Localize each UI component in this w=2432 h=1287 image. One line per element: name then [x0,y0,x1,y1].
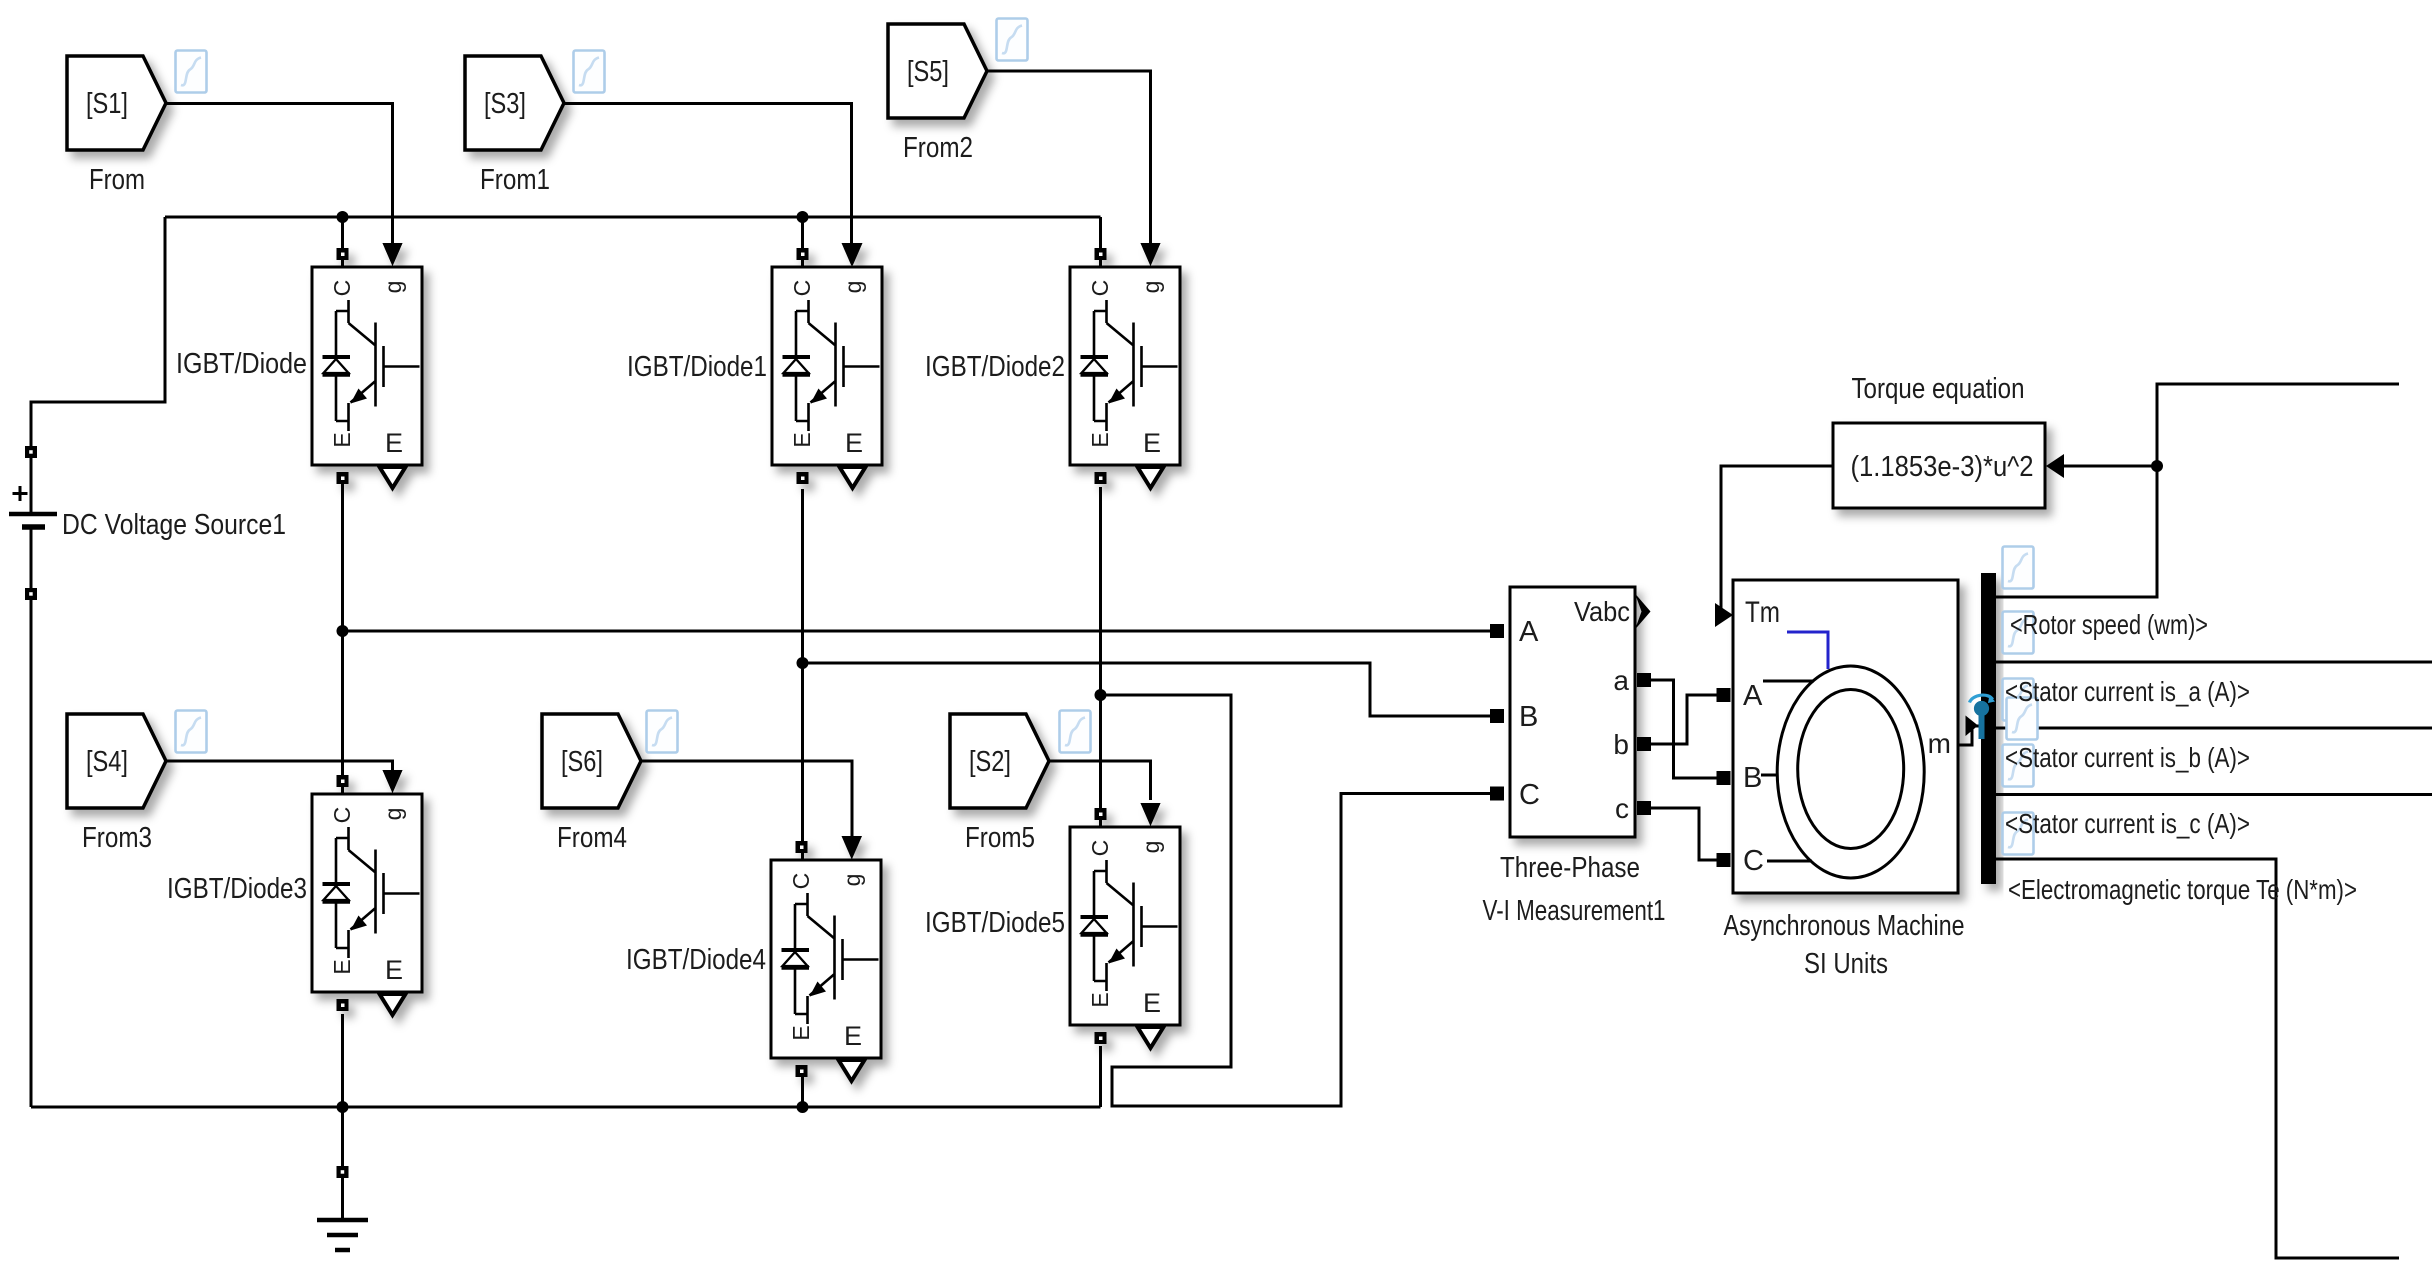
machine input port C [1717,853,1731,867]
wire: V-I output c to machine C [1651,808,1717,860]
svg-text:(1.1853e-3)*u^2: (1.1853e-3)*u^2 [1851,451,2034,483]
IGBT/Diode block IGBT/Diode [312,243,422,488]
svg-text:SI Units: SI Units [1804,948,1888,980]
V-I Measurement1 input port B [1490,709,1504,723]
wire: From4 [S6] to IGBT/Diode4 gate [641,761,852,838]
machine stator lead C [1767,860,1812,863]
node: phase C tap [1095,689,1107,701]
svg-text:IGBT/Diode1: IGBT/Diode1 [627,351,767,383]
wire: stator current is_a line [1996,661,2432,664]
machine input port A [1717,688,1731,702]
goto-from tag From2 [S5] [888,24,987,118]
viewer badge bus output 1 [2003,547,2034,589]
wire: From5 [S2] to IGBT/Diode5 gate [1049,761,1151,800]
svg-text:IGBT/Diode3: IGBT/Diode3 [167,873,307,905]
svg-text:IGBT/Diode5: IGBT/Diode5 [925,907,1065,939]
viewer badge at From4 [647,711,678,753]
IGBT/Diode block IGBT/Diode5 [1070,803,1180,1048]
arrowhead into IGBT/Diode4 g [842,836,862,859]
svg-text:From5: From5 [965,822,1035,854]
wire: column3 bottom (IGBT/Diode5 E to DC- bus) [1099,1046,1102,1107]
viewer badge bus output 5 [2003,745,2034,787]
svg-text:[S3]: [S3] [484,88,526,120]
svg-text:[S4]: [S4] [86,746,128,778]
DC Voltage Source1 battery symbol [9,512,57,517]
wire: phase C loop to V-I Measurement input C [1101,695,1491,1106]
wire: column3 middle (IGBT/Diode2 E to IGBT/Diode5 C) [1099,487,1102,827]
svg-text:b: b [1613,729,1629,760]
viewer badge at From5 [1060,711,1091,753]
machine stator lead B [1761,774,1778,777]
wire: From2 [S5] to IGBT/Diode2 gate [987,71,1151,246]
svg-text:IGBT/Diode: IGBT/Diode [176,348,307,380]
wire: phase B to V-I Measurement input B [803,663,1491,716]
IGBT/Diode block IGBT/Diode4 [771,836,881,1081]
svg-text:[S1]: [S1] [86,88,128,120]
wire: phase A to V-I Measurement input A [343,630,1491,633]
wire: machine m output to bus selector [1958,726,1981,745]
wire: torque equation output to Tm input [1721,466,1833,610]
arrowhead into IGBT/Diode1 g [842,243,862,266]
svg-text:<Rotor speed (wm)>: <Rotor speed (wm)> [2010,609,2208,640]
V-I Measurement1 input port C [1490,787,1504,801]
viewer badge bus output 6 [2003,813,2034,855]
machine rotor outer ellipse [1777,666,1924,878]
Torque equation Fcn block [1833,423,2045,508]
svg-text:[S2]: [S2] [969,746,1011,778]
goto-from tag From [S1] [67,56,166,150]
wire: stator current is_b line [1996,727,2432,730]
machine Tm blue pointer line [1787,632,1828,669]
svg-text:[S6]: [S6] [561,746,603,778]
wire: DC- rail down left side [30,527,33,1107]
wire: rotor speed feedback to torque equation input [2064,465,2157,468]
V-I Measurement1 output chevron Vabc [1635,594,1651,630]
svg-text:From1: From1 [480,164,550,196]
ground port square [337,1166,349,1178]
Three-Phase V-I Measurement1 block [1510,587,1635,837]
svg-text:A: A [1743,680,1763,712]
arrowhead into IGBT/Diode3 g [383,770,403,793]
viewer badge bus output 4 [2007,698,2038,740]
bus selector bar [1981,573,1996,884]
node: bus junction col1 top [337,211,349,223]
node: bus junction col2 top [797,211,809,223]
svg-text:c: c [1615,793,1629,824]
goto-from tag From1 [S3] [465,56,564,150]
svg-text:Asynchronous Machine: Asynchronous Machine [1724,910,1965,942]
wire: column2 middle (IGBT/Diode1 E to IGBT/Diode4 C) [801,489,804,860]
node: DC- bus junction col1 [337,1101,349,1113]
svg-text:Three-Phase: Three-Phase [1500,852,1640,884]
V-I Measurement1 input port A [1490,624,1504,638]
svg-text:B: B [1743,762,1762,794]
svg-text:B: B [1519,701,1538,733]
viewer badge bus output 2 [2003,612,2034,654]
svg-text:C: C [1519,779,1540,811]
svg-text:C: C [1743,845,1764,877]
Asynchronous Machine SI Units block [1733,580,1958,893]
viewer badge at From1 [574,51,605,93]
IGBT/Diode block IGBT/Diode1 [772,243,882,488]
svg-text:<Stator current is_b (A)>: <Stator current is_b (A)> [2005,742,2250,773]
viewer badge at From2 [997,19,1028,61]
arrowhead into IGBT/Diode g [383,243,403,266]
svg-text:DC Voltage Source1: DC Voltage Source1 [62,509,286,541]
node: wm feedback junction [2151,460,2163,472]
svg-text:Vabc: Vabc [1574,596,1630,627]
wire: rotor speed (wm) net [1996,384,2399,597]
viewer badge at From [176,51,207,93]
svg-text:From4: From4 [557,822,627,854]
DC Voltage Source1 plus sign [13,486,28,501]
wire: column1 top (bus to IGBT/Diode C) [341,217,344,267]
svg-text:<Stator current is_a (A)>: <Stator current is_a (A)> [2005,676,2250,707]
svg-text:a: a [1613,665,1629,696]
wire: column1 bottom (IGBT/Diode3 E to DC- bus and ground) [341,1014,344,1166]
wire: column1 middle (IGBT/Diode E to IGBT/Diode3 C) [341,484,344,794]
IGBT/Diode block IGBT/Diode3 [312,770,422,1015]
wire: ground stem [341,1178,344,1220]
goto-from tag From4 [S6] [542,714,641,808]
svg-text:From: From [89,164,145,196]
svg-text:[S5]: [S5] [907,56,949,88]
wire: column2 top (bus to IGBT/Diode1 C) [801,217,804,267]
machine input port B [1717,771,1731,785]
svg-text:IGBT/Diode2: IGBT/Diode2 [925,351,1065,383]
wire: From3 [S4] to IGBT/Diode3 gate [166,761,393,772]
node: phase B tap [797,657,809,669]
svg-text:<Stator current is_c (A)>: <Stator current is_c (A)> [2005,808,2250,839]
wire: V-I output a to machine B [1651,680,1717,778]
wire: top DC+ bus [165,216,1101,219]
node: phase A tap [337,625,349,637]
wire: From1 [S3] to IGBT/Diode1 gate [563,104,852,247]
IGBT/Diode block IGBT/Diode2 [1070,243,1180,488]
wire: electromagnetic torque Te line [1996,859,2399,1258]
goto-from tag From3 [S4] [67,714,166,808]
wire: column2 bottom (IGBT/Diode4 E to DC- bus) [801,1076,804,1107]
svg-text:A: A [1519,616,1539,648]
machine output m arrowhead [1966,716,1979,737]
viewer badge bus output 3 [2003,679,2034,721]
wire: stator current is_c line [1996,793,2432,796]
machine rotor inner ellipse [1798,690,1904,849]
svg-text:Torque equation: Torque equation [1852,373,2025,405]
wire: column3 top (bus corner to IGBT/Diode2 C) [1099,217,1102,267]
wire: left DC+ riser [31,217,165,514]
arrowhead into IGBT/Diode2 g [1141,243,1161,266]
svg-text:From3: From3 [82,822,152,854]
svg-text:From2: From2 [903,132,973,164]
machine Tm input arrowhead [1715,603,1733,627]
V-I Measurement1 output port a [1637,673,1651,687]
V-I Measurement1 output port b [1637,737,1651,751]
DC Voltage Source1 + port [25,446,37,458]
DC Voltage Source1 - port [25,588,37,600]
V-I Measurement1 output port c [1637,801,1651,815]
svg-text:Tm: Tm [1745,596,1780,629]
arrowhead into IGBT/Diode5 g [1141,803,1161,826]
wire: From [S1] to IGBT/Diode gate [166,104,393,247]
machine stator lead A [1763,680,1814,683]
torque equation input arrowhead [2046,454,2064,478]
wire: V-I output b to machine A [1651,695,1717,744]
signal logging teal icon [1979,712,1985,739]
svg-text:IGBT/Diode4: IGBT/Diode4 [626,944,766,976]
goto-from tag From5 [S2] [950,714,1049,808]
viewer badge at From3 [176,711,207,753]
node: DC- bus junction col2 [797,1101,809,1113]
machine m port dashes [1985,726,1994,733]
svg-text:<Electromagnetic torque Te (N*: <Electromagnetic torque Te (N*m)> [2008,874,2357,905]
svg-text:V-I Measurement1: V-I Measurement1 [1483,895,1666,927]
svg-text:m: m [1928,728,1951,759]
ground symbol [317,1220,368,1250]
wire: bottom DC- bus [31,1106,1101,1109]
